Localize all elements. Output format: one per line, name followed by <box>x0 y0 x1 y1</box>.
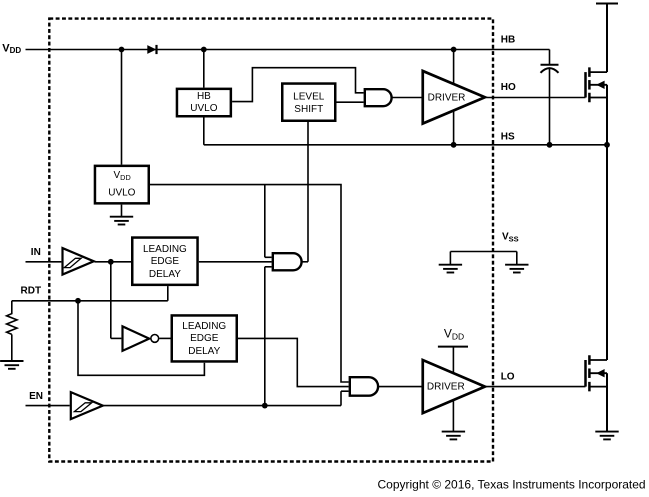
svg-text:EN: EN <box>29 391 43 402</box>
svg-text:IN: IN <box>31 247 41 258</box>
svg-text:HB: HB <box>501 35 515 46</box>
svg-text:HO: HO <box>501 82 516 93</box>
svg-text:SHIFT: SHIFT <box>294 104 323 115</box>
svg-text:LEVEL: LEVEL <box>293 92 325 103</box>
svg-text:LEADING: LEADING <box>182 321 226 332</box>
svg-text:LEADING: LEADING <box>143 244 187 255</box>
svg-text:LO: LO <box>501 371 515 382</box>
svg-text:UVLO: UVLO <box>108 187 135 198</box>
svg-text:DRIVER: DRIVER <box>428 92 466 103</box>
svg-text:RDT: RDT <box>21 285 42 296</box>
svg-text:EDGE: EDGE <box>151 256 180 267</box>
svg-text:DELAY: DELAY <box>188 346 220 357</box>
svg-text:DELAY: DELAY <box>149 269 181 280</box>
svg-text:Copyright © 2016, Texas Instru: Copyright © 2016, Texas Instruments Inco… <box>378 478 646 492</box>
svg-text:UVLO: UVLO <box>190 103 217 114</box>
svg-text:EDGE: EDGE <box>190 333 219 344</box>
svg-text:DRIVER: DRIVER <box>427 381 465 392</box>
svg-text:HS: HS <box>501 132 515 143</box>
svg-text:HB: HB <box>197 91 211 102</box>
